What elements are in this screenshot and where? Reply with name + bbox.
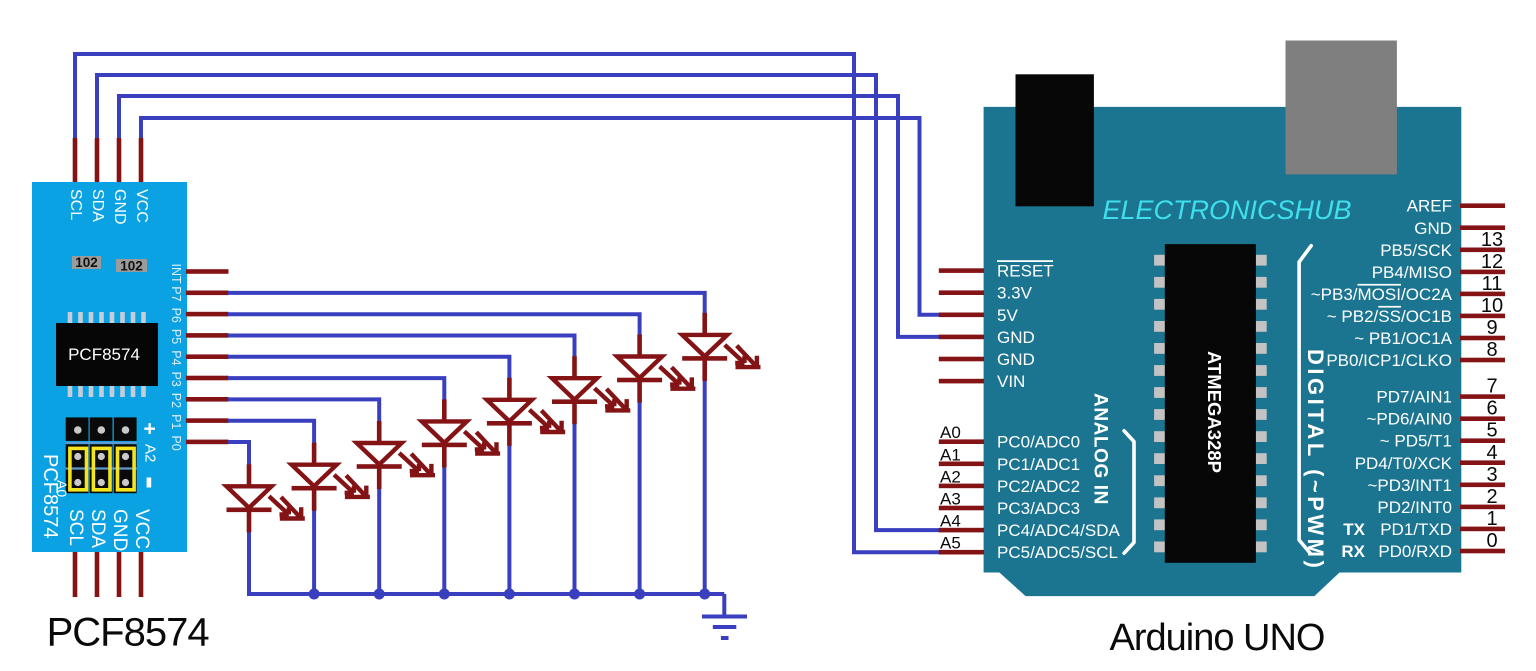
Arduino USB connector (gray) — [1286, 41, 1397, 175]
svg-text:4: 4 — [1486, 442, 1497, 464]
LED D3 light arrows — [399, 453, 419, 471]
LED D1 light arrows — [269, 496, 289, 514]
svg-text:5: 5 — [1486, 420, 1497, 442]
LED D4 triangle — [422, 421, 467, 443]
LED D4 light arrows — [464, 431, 484, 449]
ground symbol — [722, 594, 726, 617]
LED D8 cathode bar — [682, 356, 727, 361]
LED D8 triangle — [682, 335, 727, 357]
svg-text:PB4/MISO: PB4/MISO — [1372, 263, 1452, 282]
LED D8 light arrows — [725, 345, 745, 363]
svg-text:VCC: VCC — [133, 189, 150, 223]
wire LED D8 cathode to ground rail — [703, 379, 707, 594]
pin stub: PCF8574 P1 — [186, 418, 229, 423]
ground rail wire — [247, 592, 724, 596]
LED D6 light arrows — [595, 388, 615, 406]
pin stub: Arduino A2 (PC2/ADC2) — [939, 484, 984, 489]
svg-text:10: 10 — [1481, 295, 1503, 317]
svg-text:P0: P0 — [169, 435, 183, 450]
pin stub: Arduino PB5/SCK — [1460, 248, 1505, 253]
wire LED D7 cathode to ground rail — [638, 401, 642, 595]
wire P1 from PCF P1 pin to LED D2 anode — [228, 421, 314, 445]
LED D6 cathode lead — [572, 403, 577, 424]
pin stub: Arduino 5V — [939, 313, 984, 318]
pin stub: Arduino VIN — [939, 379, 984, 384]
LED D1 cathode bar — [227, 508, 272, 513]
svg-text:2: 2 — [1486, 486, 1497, 508]
LED D7 cathode lead — [637, 382, 642, 403]
pin stub: Arduino PD0/RXD — [1460, 549, 1505, 554]
Arduino UNO board outline — [984, 107, 1462, 596]
wire GND: PCF8574 GND pin to Arduino GND — [119, 96, 940, 337]
pin stub: Arduino RESET — [939, 268, 984, 273]
svg-text:INT: INT — [169, 264, 183, 285]
svg-text:6: 6 — [1486, 398, 1497, 420]
svg-text:3: 3 — [1486, 464, 1497, 486]
IC U1 PCF8574 expander chip pins (top row) — [68, 312, 73, 324]
brace for digital pins — [1299, 246, 1311, 553]
jumper block J2 black base — [66, 444, 89, 493]
wire SCL: PCF8574 SCL pin to Arduino A5/PC5 — [75, 54, 940, 552]
svg-text:SDA: SDA — [87, 509, 108, 548]
trace line across jumper block — [66, 442, 137, 444]
wire P5 from PCF P5 pin to LED D6 anode — [228, 336, 575, 359]
svg-text:AREF: AREF — [1407, 197, 1452, 216]
svg-text:PC3/ADC3: PC3/ADC3 — [997, 499, 1080, 518]
svg-text:VCC: VCC — [131, 509, 152, 549]
svg-text:SCL: SCL — [67, 189, 84, 220]
yellow jumper shunt 2 — [93, 448, 110, 489]
LED D2 light arrows — [334, 475, 354, 493]
pin stub: PCF8574 bottom pin SCL — [73, 552, 78, 597]
svg-text:102: 102 — [75, 255, 98, 270]
LED D8 anode lead — [702, 313, 707, 336]
svg-text:DIGITAL (~PWM): DIGITAL (~PWM) — [1303, 349, 1328, 571]
header J1 top row (3 pads with pins) — [66, 417, 89, 441]
LED D2 cathode lead — [312, 490, 317, 511]
svg-text:PCF8574: PCF8574 — [68, 345, 140, 364]
pin stub: PCF8574 P4 — [186, 354, 229, 359]
IC U1 PCF8574 expander chip pins (bottom row) — [68, 385, 73, 397]
pin stub: Arduino PB3/MOSI/OC2A — [1460, 292, 1505, 297]
svg-text:3.3V: 3.3V — [997, 284, 1033, 303]
pin stub: Arduino GND — [939, 357, 984, 362]
pin stub: Arduino A0 (PC0/ADC0) — [939, 439, 984, 444]
wire LED D4 cathode to ground rail — [442, 465, 446, 594]
LED D4 anode lead — [442, 399, 447, 422]
wire LED D2 cathode to ground rail — [312, 509, 316, 594]
svg-text:1: 1 — [1486, 508, 1497, 530]
svg-text:8: 8 — [1486, 339, 1497, 361]
svg-text:12: 12 — [1481, 251, 1503, 273]
svg-text:~ PD5/T1: ~ PD5/T1 — [1380, 432, 1452, 451]
svg-text:VIN: VIN — [997, 372, 1025, 391]
pin stub: Arduino GND — [1460, 225, 1505, 230]
LED D3 triangle — [357, 443, 402, 465]
pin stub: Arduino PB2/SS/OC1B — [1460, 314, 1505, 319]
pin stub: PCF8574 top pin SCL — [73, 138, 78, 185]
LED D6 cathode bar — [552, 399, 597, 404]
svg-text:PD7/AIN1: PD7/AIN1 — [1376, 388, 1452, 407]
pin stub: Arduino PD2/INT0 — [1460, 505, 1505, 510]
svg-text:7: 7 — [1486, 376, 1497, 398]
wire LED D6 cathode to ground rail — [573, 422, 577, 594]
LED D4 cathode bar — [422, 443, 467, 448]
svg-text:RESET: RESET — [997, 262, 1054, 281]
LED D1 cathode lead — [247, 511, 252, 532]
svg-text:ANALOG IN: ANALOG IN — [1090, 393, 1111, 505]
pin stub: PCF8574 P0 — [186, 440, 229, 445]
svg-text:A2: A2 — [142, 444, 159, 462]
brace for analog pins — [1124, 431, 1134, 553]
svg-text:P2: P2 — [169, 393, 183, 408]
PCF8574 I2C module board — [32, 182, 187, 552]
LED D7 cathode bar — [617, 378, 662, 383]
LED D2 triangle — [292, 465, 337, 487]
wire P7 from PCF P7 pin to LED D8 anode — [228, 293, 705, 315]
LED D6 triangle — [552, 378, 597, 400]
svg-text:~PB3/MOSI/OC2A: ~PB3/MOSI/OC2A — [1311, 285, 1453, 304]
svg-text:P7: P7 — [169, 286, 183, 301]
pin stub: Arduino A5 (PC5/ADC5/SCL) — [939, 550, 984, 555]
LED D6 anode lead — [572, 356, 577, 379]
svg-text:PB0/ICP1/CLKO: PB0/ICP1/CLKO — [1326, 351, 1452, 370]
svg-text:PCF8574: PCF8574 — [47, 611, 210, 655]
svg-text:A3: A3 — [940, 490, 961, 509]
LED D7 light arrows — [660, 367, 680, 385]
svg-text:A5: A5 — [940, 534, 961, 553]
svg-text:RX: RX — [1341, 542, 1365, 561]
pin stub: Arduino A1 (PC1/ADC1) — [939, 462, 984, 467]
IC ATMEGA328P body — [1165, 244, 1256, 563]
IC ATMEGA328P pins (right column) — [1256, 255, 1267, 266]
svg-text:GND: GND — [111, 189, 128, 225]
IC ATMEGA328P pins (left column) — [1154, 255, 1165, 266]
LED D1 triangle — [227, 486, 272, 508]
pin stub: PCF8574 P6 — [186, 312, 229, 317]
svg-text:ELECTRONICSHUB: ELECTRONICSHUB — [1102, 195, 1351, 225]
svg-text:GND: GND — [109, 509, 130, 551]
svg-text:~PD3/INT1: ~PD3/INT1 — [1367, 476, 1452, 495]
svg-text:9: 9 — [1486, 317, 1497, 339]
svg-text:PD4/T0/XCK: PD4/T0/XCK — [1355, 454, 1453, 473]
LED D1 anode lead — [247, 464, 252, 487]
LED D4 cathode lead — [442, 446, 447, 467]
svg-text:GND: GND — [997, 350, 1035, 369]
pin stub: PCF8574 bottom pin SDA — [95, 552, 100, 597]
svg-text:11: 11 — [1482, 273, 1503, 295]
pin stub: Arduino PB1/OC1A — [1460, 336, 1505, 341]
pin stub: PCF8574 bottom pin VCC — [139, 552, 144, 597]
svg-text:PC0/ADC0: PC0/ADC0 — [997, 433, 1080, 452]
svg-text:SDA: SDA — [89, 189, 106, 222]
IC U1 PCF8574 expander chip body — [56, 323, 158, 386]
pin stub: Arduino AREF — [1460, 203, 1505, 208]
pin stub: PCF8574 bottom pin GND — [117, 552, 122, 597]
svg-text:GND: GND — [1414, 219, 1452, 238]
svg-text:5V: 5V — [997, 306, 1018, 325]
pin stub: PCF8574 P5 — [186, 333, 229, 338]
pin stub: Arduino PB4/MISO — [1460, 270, 1505, 275]
wire P0 from PCF P0 pin to LED D1 anode — [228, 442, 249, 466]
svg-text:P3: P3 — [169, 372, 183, 387]
svg-text:A2: A2 — [940, 467, 961, 486]
pin stub: PCF8574 P7 — [186, 291, 229, 296]
label: jumper - — [147, 478, 152, 488]
yellow jumper shunt 3 — [118, 448, 135, 489]
pin stub: Arduino PD6/AIN0 — [1460, 416, 1505, 421]
svg-text:ATMEGA328P: ATMEGA328P — [1204, 351, 1225, 473]
pin stub: PCF8574 INT — [186, 269, 229, 274]
svg-text:A0: A0 — [940, 423, 961, 442]
svg-text:PD1/TXD: PD1/TXD — [1380, 520, 1452, 539]
svg-text:PC1/ADC1: PC1/ADC1 — [997, 455, 1080, 474]
svg-text:PCF8574: PCF8574 — [39, 454, 61, 539]
pin stub: PCF8574 P2 — [186, 397, 229, 402]
svg-text:GND: GND — [997, 328, 1035, 347]
svg-text:P4: P4 — [169, 350, 183, 365]
wire LED D1 cathode to ground rail — [247, 530, 251, 594]
pin stub: Arduino PD3/INT1 — [1460, 483, 1505, 488]
LED D8 cathode lead — [702, 360, 707, 381]
wire P4 from PCF P4 pin to LED D5 anode — [228, 357, 509, 380]
LED D5 light arrows — [529, 410, 549, 428]
svg-text:~ PB1/OC1A: ~ PB1/OC1A — [1354, 329, 1452, 348]
svg-text:0: 0 — [1486, 530, 1497, 552]
svg-text:P6: P6 — [169, 308, 183, 323]
pin stub: PCF8574 top pin VCC — [139, 138, 144, 185]
svg-text:~PD6/AIN0: ~PD6/AIN0 — [1366, 410, 1452, 429]
jumper pin dots — [74, 453, 81, 460]
wire LED D3 cathode to ground rail — [377, 487, 381, 594]
pin stub: PCF8574 top pin GND — [117, 138, 122, 185]
overline for RESET — [997, 260, 1053, 262]
svg-text:PB5/SCK: PB5/SCK — [1380, 241, 1452, 260]
svg-text:PC2/ADC2: PC2/ADC2 — [997, 477, 1080, 496]
svg-text:13: 13 — [1481, 229, 1503, 251]
wire P6 from PCF P6 pin to LED D7 anode — [228, 314, 640, 336]
LED D3 cathode lead — [377, 468, 382, 489]
wire P2 from PCF P2 pin to LED D3 anode — [228, 399, 379, 423]
LED D3 anode lead — [377, 421, 382, 444]
svg-text:A1: A1 — [940, 445, 961, 464]
svg-text:PD2/INT0: PD2/INT0 — [1377, 498, 1452, 517]
wire VCC: PCF8574 VCC pin to Arduino 5V — [141, 118, 940, 315]
pin stub: PCF8574 top pin SDA — [95, 138, 100, 185]
svg-text:A4: A4 — [940, 512, 961, 531]
pin stub: Arduino PD4/T0/XCK — [1460, 460, 1505, 465]
pin stub: Arduino A3 (PC3/ADC3) — [939, 506, 984, 511]
svg-text:PD0/RXD: PD0/RXD — [1378, 542, 1452, 561]
pin stub: Arduino PD1/TXD — [1460, 527, 1505, 532]
svg-text:102: 102 — [120, 259, 143, 274]
svg-text:SCL: SCL — [65, 509, 86, 546]
yellow jumper shunt 1 — [70, 448, 87, 489]
resistor R1 value 102 (pull-up) — [72, 256, 101, 269]
LED D5 cathode bar — [487, 421, 532, 426]
pin stub: Arduino 3.3V — [939, 290, 984, 295]
LED D5 anode lead — [507, 378, 512, 401]
wire LED D5 cathode to ground rail — [507, 444, 511, 594]
svg-text:~ PB2/SS/OC1B: ~ PB2/SS/OC1B — [1327, 307, 1452, 326]
pin stub: Arduino PB0/ICP1/CLKO — [1460, 358, 1505, 363]
svg-text:+: + — [144, 418, 156, 441]
pin stub: PCF8574 P3 — [186, 376, 229, 381]
svg-text:P5: P5 — [169, 329, 183, 344]
LED D7 anode lead — [637, 335, 642, 358]
LED D5 triangle — [487, 400, 532, 422]
LED D2 anode lead — [312, 443, 317, 466]
LED D3 cathode bar — [357, 464, 402, 469]
pin stub: Arduino GND — [939, 335, 984, 340]
svg-text:TX: TX — [1343, 520, 1365, 539]
svg-text:PC4/ADC4/SDA: PC4/ADC4/SDA — [997, 521, 1120, 540]
svg-text:PC5/ADC5/SCL: PC5/ADC5/SCL — [997, 543, 1118, 562]
LED D5 cathode lead — [507, 425, 512, 446]
ground rail junction dots — [309, 589, 320, 600]
svg-text:P1: P1 — [169, 414, 183, 429]
Arduino power jack (black) — [1016, 74, 1094, 206]
wire SDA: PCF8574 SDA pin to Arduino A4/PC4 — [97, 75, 940, 530]
wire P3 from PCF P3 pin to LED D4 anode — [228, 378, 444, 401]
LED D2 cathode bar — [292, 486, 337, 491]
header J1 top row pin dots — [74, 426, 82, 434]
svg-text:Arduino UNO: Arduino UNO — [1110, 617, 1325, 659]
resistor R2 value 102 (pull-up) — [116, 259, 147, 272]
pin stub: Arduino A4 (PC4/ADC4/SDA) — [939, 528, 984, 533]
pin stub: Arduino PD5/T1 — [1460, 438, 1505, 443]
LED D7 triangle — [617, 357, 662, 379]
trace line across jumpers — [66, 467, 137, 469]
pin stub: Arduino PD7/AIN1 — [1460, 394, 1505, 399]
